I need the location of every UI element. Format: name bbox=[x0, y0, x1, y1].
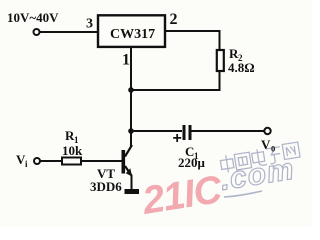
ground bbox=[125, 189, 140, 194]
capacitor C1 bbox=[173, 125, 192, 147]
node B junction bbox=[128, 128, 134, 134]
wire pin 2 to R2 bbox=[165, 31, 220, 50]
svg-text:2: 2 bbox=[170, 11, 178, 28]
svg-text:CW317: CW317 bbox=[110, 27, 155, 42]
output terminal Vo bbox=[264, 128, 270, 134]
watermark (decorative) bbox=[139, 142, 300, 223]
svg-text:i: i bbox=[25, 159, 28, 169]
wire pin 1 to node A bbox=[130, 47, 132, 90]
wire R1 to base bbox=[81, 160, 122, 162]
svg-text:1: 1 bbox=[122, 52, 130, 69]
wire C1 to output terminal bbox=[192, 130, 265, 132]
label R2 bbox=[229, 46, 243, 63]
label R1 bbox=[65, 128, 79, 145]
svg-text:V: V bbox=[261, 137, 271, 152]
resistor R2 bbox=[217, 50, 224, 71]
resistor R1 bbox=[62, 158, 81, 165]
wire node B to capacitor C1 bbox=[131, 130, 182, 132]
svg-text:3DD6: 3DD6 bbox=[90, 179, 122, 194]
wire Vi terminal to R1 bbox=[40, 160, 62, 162]
wire R2 bottom to node A bbox=[131, 71, 220, 90]
wire supply terminal to pin 3 bbox=[40, 31, 98, 33]
svg-text:3: 3 bbox=[86, 17, 93, 32]
svg-text:10k: 10k bbox=[62, 143, 83, 158]
svg-text:+: + bbox=[173, 130, 182, 147]
node A junction bbox=[128, 87, 134, 93]
label Vi bbox=[16, 152, 28, 169]
svg-text:10V~40V: 10V~40V bbox=[7, 10, 59, 25]
svg-text:0: 0 bbox=[271, 144, 275, 154]
label C1 bbox=[185, 144, 199, 161]
svg-text:220μ: 220μ bbox=[178, 155, 206, 170]
input supply terminal bbox=[34, 29, 40, 35]
transistor VT 3DD6 bbox=[122, 145, 133, 177]
wire emitter to ground bbox=[131, 175, 133, 189]
regulator CW317 bbox=[98, 15, 165, 47]
wire node B to collector bbox=[130, 131, 132, 146]
wire node A to node B bbox=[130, 90, 132, 131]
svg-text:21IC: 21IC bbox=[139, 168, 226, 223]
input terminal Vi bbox=[34, 158, 40, 164]
svg-text:4.8Ω: 4.8Ω bbox=[228, 60, 255, 75]
label Vo bbox=[261, 137, 275, 154]
